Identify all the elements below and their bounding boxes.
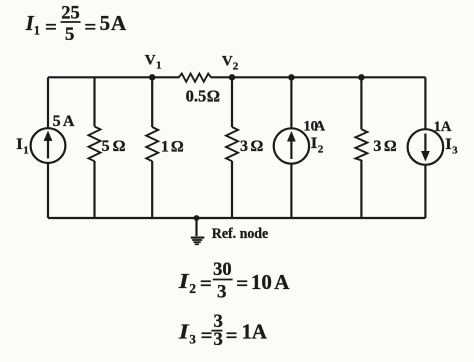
svg-text:1: 1 — [156, 59, 162, 71]
svg-text:1: 1 — [34, 24, 40, 38]
svg-text:=: = — [200, 271, 212, 295]
svg-text:1: 1 — [242, 319, 253, 343]
resistor 5 ohm — [89, 77, 101, 218]
ground ref node — [191, 215, 205, 244]
svg-text:A: A — [63, 113, 75, 130]
svg-text:V: V — [222, 53, 233, 69]
svg-text:5: 5 — [100, 11, 111, 35]
svg-text:Ω: Ω — [251, 138, 264, 155]
svg-text:A: A — [111, 11, 127, 35]
node dot I2 branch — [288, 74, 294, 80]
current source I2 — [274, 77, 309, 218]
wire top right — [211, 76, 425, 78]
svg-text:A: A — [441, 119, 452, 135]
svg-text:=: = — [226, 323, 238, 347]
svg-text:1: 1 — [434, 119, 441, 135]
node V1 dot — [149, 74, 155, 80]
svg-text:5: 5 — [53, 113, 61, 130]
svg-text:3: 3 — [217, 282, 227, 303]
svg-text:3: 3 — [189, 332, 196, 347]
svg-text:Ω: Ω — [171, 138, 184, 155]
current source I3 — [408, 77, 444, 218]
node dot right 3-ohm branch — [358, 74, 364, 80]
svg-text:3: 3 — [213, 329, 223, 350]
svg-text:Ω: Ω — [113, 138, 126, 155]
svg-text:30: 30 — [213, 260, 232, 280]
svg-text:2: 2 — [189, 281, 196, 296]
svg-text:=: = — [201, 323, 213, 347]
svg-text:=: = — [236, 271, 248, 295]
svg-text:0.5: 0.5 — [186, 87, 207, 106]
svg-text:2: 2 — [318, 143, 324, 155]
svg-text:=: = — [45, 14, 57, 38]
svg-text:I: I — [178, 269, 190, 293]
svg-text:I: I — [16, 136, 23, 153]
svg-text:25: 25 — [61, 3, 79, 23]
svg-text:Ref. node: Ref. node — [212, 226, 269, 242]
svg-text:3: 3 — [240, 138, 248, 155]
svg-text:I: I — [178, 319, 190, 343]
svg-text:3: 3 — [373, 138, 381, 155]
resistor 0.5 ohm — [179, 74, 212, 82]
svg-text:=: = — [84, 14, 96, 38]
svg-text:10: 10 — [251, 270, 272, 294]
svg-text:V: V — [145, 53, 156, 69]
svg-text:Ω: Ω — [207, 87, 220, 106]
svg-text:3: 3 — [452, 145, 458, 157]
svg-text:5: 5 — [65, 24, 75, 45]
node V2 dot — [229, 74, 235, 80]
svg-text:1: 1 — [23, 144, 29, 156]
svg-text:I: I — [311, 135, 318, 152]
resistor 1 ohm — [146, 77, 158, 218]
svg-text:1: 1 — [161, 138, 169, 155]
svg-text:2: 2 — [233, 60, 239, 72]
current source I1 — [31, 77, 66, 218]
svg-text:Ω: Ω — [384, 138, 397, 155]
equation I3 = 3/3 = 1 A — [178, 311, 268, 350]
resistor 3 ohm (right) — [355, 77, 367, 218]
svg-text:A: A — [252, 319, 268, 343]
svg-text:I: I — [445, 136, 452, 153]
wire top left — [48, 76, 180, 78]
svg-text:A: A — [274, 270, 290, 294]
svg-text:A: A — [315, 118, 326, 134]
svg-text:5: 5 — [102, 138, 110, 155]
resistor 3 ohm (left) — [226, 77, 238, 218]
equation I2 = 30/3 = 10 A — [178, 260, 291, 303]
equation I1 = 25/5 = 5 A — [25, 3, 127, 45]
wire bottom — [48, 217, 425, 219]
